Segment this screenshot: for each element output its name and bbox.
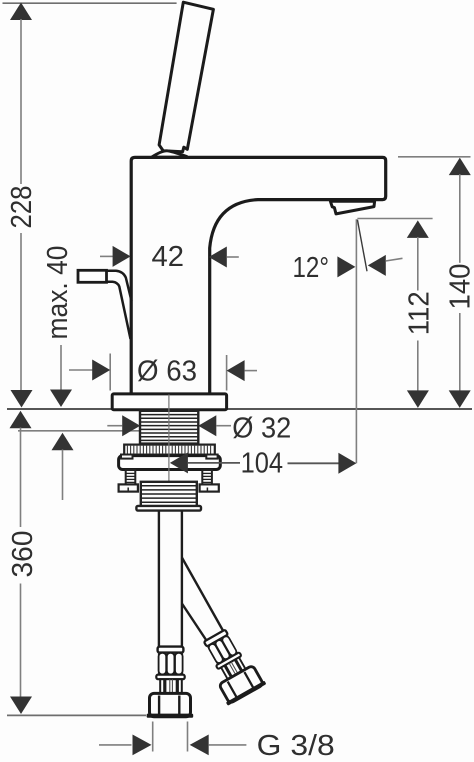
straight hose crimp flare (156, 675, 184, 680)
hose end reference line C (7, 714, 146, 716)
dimension 104 right arrow (338, 453, 356, 474)
dimension 42 right leader (227, 256, 239, 258)
right stud foot (200, 484, 219, 491)
G 3/8 right extension line (187, 722, 189, 752)
dimension 228 line lower segment (20, 233, 22, 391)
straight hose right edge (181, 511, 183, 647)
dimension 104 left arrow (at center line) (170, 452, 188, 473)
washer right tab (206, 455, 217, 459)
straight hose left edge (158, 511, 160, 647)
dimension 112 top arrow (407, 220, 429, 238)
right threaded stud (202, 470, 212, 485)
dimension 42 right arrow (209, 247, 227, 268)
drain pull knob (78, 270, 107, 282)
dimension 228 bottom arrow (11, 390, 33, 408)
dimension 42 left leader (100, 255, 113, 257)
diameter 63 right extension line (226, 355, 228, 391)
G 3/8 left arrow (133, 735, 152, 756)
top reference line (228 datum at handle tip level) (3, 2, 177, 4)
diameter 32 left arrow (122, 415, 140, 436)
dimension 12 deg left arrow (337, 256, 355, 277)
dimension 42 left arrow (113, 246, 131, 267)
drain pull rod lower edge (106, 282, 131, 339)
left stud foot (119, 484, 138, 491)
angled hose lower edge (182, 604, 207, 642)
diameter 32 right leader (216, 425, 231, 427)
straight hose connector shank (160, 679, 182, 693)
diameter 63 left leader (69, 369, 93, 371)
diameter 63 left extension line (109, 354, 111, 391)
112 extension line at outlet level (357, 218, 432, 220)
diameter 63 right arrow (227, 360, 245, 381)
G 3/8 left leader (99, 744, 132, 746)
angled hose crimp collar (204, 630, 228, 647)
svg-text:G 3/8: G 3/8 (257, 730, 335, 762)
12 deg vertical reference line (355, 219, 357, 463)
dimension 104 right leader (288, 462, 339, 464)
dimension max40 line (60, 345, 62, 391)
dimension 104 left leader (188, 462, 240, 464)
left threaded stud (126, 470, 136, 485)
connection block lip (136, 506, 201, 511)
max40 lower reference line B (18, 430, 140, 432)
angled hose connector shank (221, 657, 246, 679)
svg-text:228: 228 (6, 186, 38, 229)
center line of shank (168, 395, 170, 482)
dimension 360 bottom arrow (10, 697, 32, 715)
dimension 140 line lower segment (459, 313, 461, 391)
diameter 63 left arrow (92, 360, 110, 381)
svg-text:max. 40: max. 40 (42, 246, 74, 340)
diameter 63 right leader (245, 370, 257, 372)
angled hose fitting group (195, 625, 267, 706)
washer left tab (121, 455, 133, 459)
angled hose crimp flare (216, 652, 242, 669)
dimension 228 top arrow (10, 3, 32, 21)
G 3/8 right leader (209, 744, 247, 746)
svg-text:112: 112 (403, 291, 435, 335)
counter reference line A (deck level) (7, 408, 472, 410)
dimension 12 deg right arrow (368, 255, 386, 276)
dimension max40 up arrow below line B (52, 433, 74, 451)
straight hose crimp barrel (158, 653, 183, 675)
aerator (spout outlet) (330, 201, 374, 214)
lever base cap (152, 151, 187, 157)
svg-text:Ø 63: Ø 63 (137, 356, 197, 388)
horseshoe washer (124, 445, 215, 455)
12 deg tilted line (357, 220, 367, 272)
dimension 228 line upper segment (20, 19, 22, 184)
diameter 32 left leader (107, 425, 122, 427)
dimension 140 top arrow (449, 158, 471, 176)
svg-text:42: 42 (152, 241, 185, 273)
140 extension line at spout top level (398, 156, 471, 158)
base plate escutcheon (112, 394, 226, 410)
faucet body outline (column + spout) (131, 157, 386, 395)
mounting nut (119, 456, 221, 470)
dimension max40 lower tail line (62, 450, 64, 501)
12 deg right leader (386, 258, 403, 261)
angled hose upper edge (182, 558, 224, 632)
G 3/8 right arrow (190, 735, 209, 756)
threaded shank (140, 411, 198, 444)
drain pull rod upper edge (106, 271, 132, 301)
lower connection block (141, 482, 197, 507)
svg-text:104: 104 (241, 447, 284, 479)
diameter 32 right arrow (198, 415, 216, 436)
dimension 360 line upper segment (20, 428, 22, 528)
angled hose crimp barrel (207, 635, 238, 665)
straight hose nut (147, 693, 194, 717)
dimension 140 bottom arrow (449, 390, 471, 408)
straight hose crimp collar (158, 647, 184, 653)
angled hose nut (219, 665, 264, 704)
dimension 140 line upper segment (459, 174, 461, 263)
G 3/8 left extension line (152, 722, 154, 752)
svg-text:12°: 12° (293, 252, 330, 284)
dimension 112 line upper segment (417, 237, 419, 291)
svg-text:140: 140 (445, 264, 474, 310)
svg-text:Ø 32: Ø 32 (232, 413, 291, 445)
dimension 112 line lower segment (417, 341, 419, 392)
faucet handle (lever) (159, 2, 213, 152)
dimension max40 down arrow (50, 390, 72, 408)
svg-text:360: 360 (7, 531, 39, 578)
dimension 112 bottom arrow (407, 390, 429, 408)
dimension 360 line lower segment (20, 584, 22, 698)
dimension 360 top arrow (10, 411, 32, 429)
